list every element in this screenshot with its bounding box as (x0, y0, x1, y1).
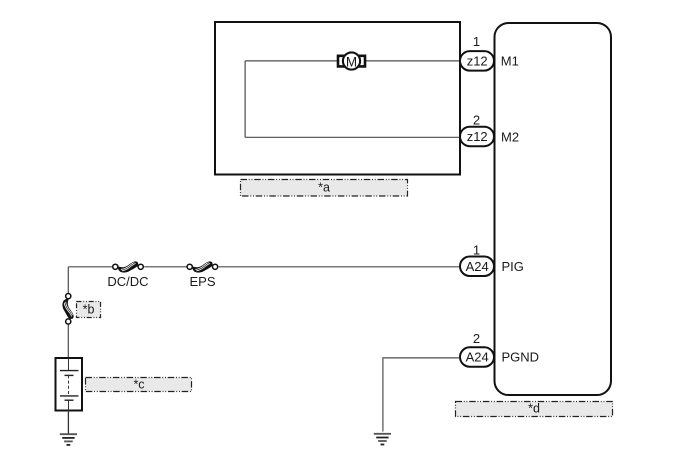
wire loop left side (244, 61, 246, 137)
ground (PGND) (374, 434, 391, 445)
ECU box (495, 23, 612, 395)
wire battery feed (vertical) (67, 267, 69, 293)
connector A24 pin 2 (460, 347, 494, 367)
svg-text:M2: M2 (501, 130, 519, 145)
wire PIG (68, 266, 112, 268)
svg-text:A24: A24 (466, 350, 489, 365)
connector A24 pin 1 (460, 257, 494, 277)
wire M2 (bottom of loop) (245, 136, 459, 138)
svg-text:z12: z12 (467, 129, 488, 144)
connector z12 pin 2 (460, 127, 494, 147)
fuse EPS (187, 261, 218, 272)
motor assembly box (215, 22, 460, 175)
wire M1 (top of loop) (245, 60, 337, 62)
label *c (86, 378, 192, 392)
svg-text:EPS: EPS (189, 274, 215, 289)
svg-text:DC/DC: DC/DC (107, 274, 148, 289)
label *d (456, 402, 613, 417)
fusible link *b (62, 294, 73, 325)
svg-text:2: 2 (473, 113, 480, 128)
label *b (77, 302, 101, 318)
svg-text:*d: *d (528, 402, 540, 416)
motor M (338, 52, 365, 69)
ground (battery) (60, 434, 77, 445)
svg-text:PGND: PGND (502, 350, 540, 365)
connector z12 pin 1 (460, 51, 494, 71)
fuse DC/DC (113, 261, 144, 272)
svg-text:PIG: PIG (502, 259, 524, 274)
svg-text:1: 1 (473, 242, 480, 257)
wire battery to ground (67, 411, 69, 435)
label *a (241, 180, 408, 197)
svg-text:2: 2 (473, 331, 480, 346)
wire PGND (383, 358, 460, 432)
battery *c (56, 358, 83, 411)
svg-text:A24: A24 (466, 259, 489, 274)
svg-text:M1: M1 (501, 54, 519, 69)
svg-text:M: M (346, 54, 357, 69)
svg-text:1: 1 (473, 34, 480, 49)
svg-text:*b: *b (83, 302, 95, 316)
svg-text:*a: *a (318, 181, 330, 195)
svg-text:*c: *c (133, 378, 144, 392)
svg-text:z12: z12 (467, 54, 488, 69)
